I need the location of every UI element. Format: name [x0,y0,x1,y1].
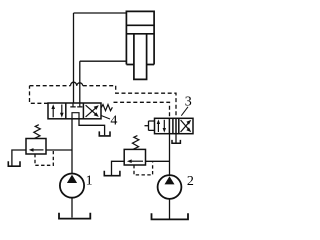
cylinder rod [134,34,147,80]
pump P2 flow triangle [165,176,175,184]
valve U3 body [155,118,194,133]
pump P2 [158,175,182,199]
valve U4 right position crossed arrows [86,105,99,117]
valve U3 left position arrows [157,119,166,132]
relief valve 1 spring [34,125,41,139]
valve U4 centre position blocked ports [70,103,82,119]
line hop over wire A [71,82,77,85]
label 3 leader [181,107,188,116]
wire: relief valve 2 outlet to tank [112,161,125,175]
wire: relief valve 1 inlet from pump 1 line [46,149,72,151]
wire: vertical B to valve 4 [79,61,81,103]
tank at relief valve 2 outlet [104,171,120,176]
relief valve (pump 2) body [124,149,145,165]
line hop over wire B [77,83,83,86]
relief valve 2 flow arrow [127,159,143,163]
valve U3 pilot plunger [145,121,155,131]
valve U4 body [48,103,101,119]
relief valve 2 spring [132,136,139,150]
pump P1 [60,174,84,198]
wire: pump 1 suction [71,198,73,218]
wire: valve 3 T port [175,134,177,143]
cylinder body [126,11,154,64]
cylinder piston [126,25,154,34]
pilot line from valve 3 to valve 4 right end (dashed) [114,102,170,118]
valve U3 right position crossed arrows [181,120,192,132]
tank under pump 2 [152,213,189,219]
tank at valve 3 T port [172,140,180,143]
wire: relief valve 1 outlet to tank [12,150,26,166]
wire: valve 4 T port to tank [79,119,105,136]
relief valve 1 flow arrow [29,148,44,152]
relief valve 1 pilot line (dashed) [35,151,53,165]
relief valve (pump 1) body [26,139,46,155]
svg-text:4: 4 [110,113,117,128]
tank under pump 1 [59,213,90,219]
svg-text:3: 3 [185,95,192,110]
wire: cylinder cap-end line [74,12,127,14]
tank at relief valve 1 outlet [8,161,20,166]
wire: valve 4 P port to pump 1 [71,119,73,174]
wire: left vertical A to valve 4 [73,13,75,103]
pump P1 flow triangle [67,175,77,183]
tank at valve 4 T port [99,131,110,136]
wire: valve 3 P port to pump 2 [169,134,171,176]
wire: relief valve 2 inlet from pump 2 line [146,160,170,162]
label 4 leader [101,115,110,119]
wire: pump 2 suction [169,199,171,219]
valve U4 left position arrows [51,104,63,117]
svg-text:2: 2 [187,174,194,189]
wire: cylinder rod-end line [80,60,127,62]
relief valve 2 pilot line (dashed) [134,162,153,175]
pilot line from valve 3 to valve 4 left end (dashed, with hops) [30,86,177,119]
valve U4 return spring [101,105,112,111]
svg-text:1: 1 [86,173,93,188]
